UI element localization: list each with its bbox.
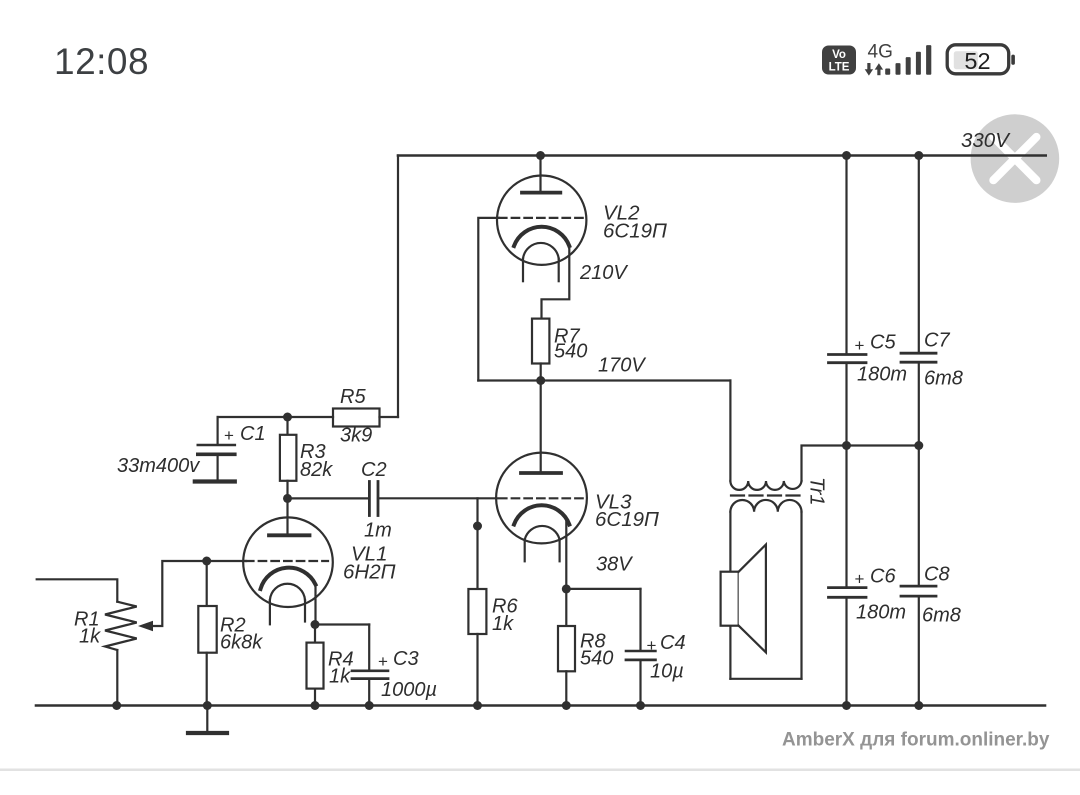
svg-text:1k: 1k bbox=[79, 626, 101, 648]
node: R5/R3/C1 junction bbox=[283, 413, 292, 422]
svg-text:180m: 180m bbox=[857, 364, 907, 386]
signal strength bars bbox=[885, 45, 931, 75]
resistor R3 bbox=[280, 417, 297, 498]
resistor R6 bbox=[468, 589, 486, 706]
node: R7 bottom / 170V bbox=[536, 376, 545, 385]
svg-text:1000µ: 1000µ bbox=[381, 679, 437, 701]
node: top rail to VL2 anode bbox=[536, 151, 545, 160]
svg-text:1m: 1m bbox=[364, 520, 392, 542]
VL3 heater bbox=[525, 526, 560, 561]
svg-text:540: 540 bbox=[554, 341, 587, 363]
wire: 170V rail bbox=[478, 379, 730, 381]
svg-text:170V: 170V bbox=[598, 355, 646, 377]
capacitor C4 bbox=[626, 589, 655, 706]
node: cathode/R8/C4 bbox=[562, 584, 571, 593]
node: rail C3 bbox=[365, 701, 374, 710]
bottom separator line bbox=[0, 769, 1080, 772]
clock 12:08 bbox=[54, 41, 149, 82]
svg-text:38V: 38V bbox=[596, 554, 633, 576]
node: R3 bottom / VL1 anode / C2 bbox=[283, 494, 292, 503]
wire: left B+ drop to R5 bbox=[397, 156, 399, 418]
VL3 anode bbox=[521, 471, 561, 475]
wire: node to C3 bbox=[315, 623, 369, 625]
svg-text:C7: C7 bbox=[924, 330, 950, 352]
VL1 grid (dashed) bbox=[246, 560, 328, 562]
wire: 170V down to transformer primary bbox=[729, 381, 731, 482]
VL2 anode bbox=[522, 156, 560, 193]
resistor R2 bbox=[198, 561, 216, 706]
resistor R8 bbox=[558, 589, 575, 706]
wire: secondary right down bbox=[800, 512, 802, 679]
svg-text:33m400v: 33m400v bbox=[117, 455, 200, 477]
svg-text:+: + bbox=[855, 336, 865, 355]
svg-text:+: + bbox=[647, 636, 657, 655]
triode VL2 envelope bbox=[497, 176, 586, 265]
VL1 heater bbox=[270, 584, 305, 625]
4G label bbox=[868, 41, 893, 62]
svg-text:330V: 330V bbox=[961, 129, 1011, 152]
node: rail C4 bbox=[636, 701, 645, 710]
wire: R1 bottom to rail bbox=[116, 650, 118, 706]
svg-text:1k: 1k bbox=[492, 613, 514, 635]
svg-text:6m8: 6m8 bbox=[922, 605, 961, 627]
speaker cone bbox=[739, 545, 766, 653]
node: rail R1 bbox=[112, 701, 121, 710]
VL2 grid (dashed) bbox=[499, 217, 583, 219]
svg-text:4G: 4G bbox=[868, 41, 893, 62]
svg-text:540: 540 bbox=[580, 648, 613, 670]
svg-text:180m: 180m bbox=[856, 602, 906, 624]
svg-text:210V: 210V bbox=[579, 262, 628, 284]
node: grid wire to R2 bbox=[202, 557, 211, 566]
VL1 cathode bbox=[261, 568, 316, 589]
svg-text:6k8k: 6k8k bbox=[220, 632, 263, 654]
wire: VL1 cathode lead bbox=[314, 585, 316, 625]
svg-text:3k9: 3k9 bbox=[340, 425, 372, 447]
battery icon bbox=[947, 45, 1015, 74]
node: rail C8 bbox=[914, 701, 923, 710]
svg-text:Vo: Vo bbox=[832, 49, 846, 61]
svg-text:C8: C8 bbox=[924, 564, 950, 586]
svg-text:6Н2П: 6Н2П bbox=[343, 561, 396, 584]
wire: node to C4 bbox=[566, 588, 640, 590]
svg-text:12:08: 12:08 bbox=[54, 41, 149, 82]
wire: branch down to R6 bbox=[476, 498, 478, 589]
capacitor C7 bbox=[901, 156, 936, 446]
svg-text:AmberX для forum.onliner.by: AmberX для forum.onliner.by bbox=[782, 730, 1050, 751]
data activity arrows bbox=[865, 63, 883, 76]
capacitor C8 bbox=[901, 446, 936, 706]
svg-text:6m8: 6m8 bbox=[924, 368, 963, 390]
arrowhead to R1 wiper bbox=[138, 621, 153, 632]
wire: C2 to VL3 grid bbox=[378, 497, 497, 499]
VoLTE badge bbox=[822, 46, 856, 75]
ground bar below R2 bbox=[188, 706, 227, 734]
svg-text:10µ: 10µ bbox=[650, 661, 684, 683]
node: top rail to C7 bbox=[914, 151, 923, 160]
node: top rail to C5 bbox=[842, 151, 851, 160]
svg-text:+: + bbox=[378, 652, 388, 671]
node: rail R4 bbox=[311, 701, 320, 710]
wire: R5 right to B+ drop bbox=[380, 416, 399, 418]
svg-text:C3: C3 bbox=[393, 648, 419, 670]
wire: VL3 cathode lead bbox=[565, 522, 567, 589]
svg-text:C5: C5 bbox=[870, 332, 896, 354]
svg-text:C2: C2 bbox=[361, 459, 387, 481]
wire: secondary left down bbox=[729, 512, 731, 679]
svg-text:1k: 1k bbox=[329, 666, 351, 688]
svg-text:+: + bbox=[224, 426, 234, 445]
VL2 heater bbox=[523, 243, 559, 281]
VL3 cathode bbox=[514, 505, 569, 524]
svg-text:C1: C1 bbox=[240, 423, 266, 445]
bottom ground rail bbox=[36, 704, 1045, 707]
svg-text:C6: C6 bbox=[870, 566, 896, 588]
wire: primary right up to mid rail bbox=[802, 446, 919, 482]
VL2 cathode bbox=[514, 227, 569, 246]
capacitor C6 bbox=[829, 446, 867, 706]
node: rail C6 bbox=[842, 701, 851, 710]
ground bar below C1 bbox=[195, 479, 235, 483]
wire: 170V down to VL3 anode bbox=[540, 381, 542, 472]
svg-text:6С19П: 6С19П bbox=[603, 220, 667, 243]
wire: VL2 cathode lead to R7 bbox=[542, 246, 570, 319]
svg-text:LTE: LTE bbox=[829, 62, 850, 74]
potentiometer R1 zigzag bbox=[105, 602, 137, 650]
speaker driver bbox=[721, 572, 739, 626]
svg-text:6С19П: 6С19П bbox=[595, 508, 659, 531]
capacitor C2 bbox=[369, 482, 378, 516]
node: rail R8 bbox=[562, 701, 571, 710]
wire: secondary loop bottom bbox=[730, 678, 801, 680]
resistor R4 bbox=[307, 625, 324, 706]
VL1 anode bbox=[269, 498, 310, 535]
watermark bbox=[782, 730, 1050, 751]
wire: R5 left to C1/R3 node bbox=[218, 416, 333, 418]
resistor R5 bbox=[333, 409, 380, 427]
svg-text:82k: 82k bbox=[300, 459, 333, 481]
svg-text:C4: C4 bbox=[660, 632, 686, 654]
node: cathode/R4/C3 bbox=[311, 620, 320, 629]
wire: VL1 grid out to left bbox=[153, 561, 246, 626]
wire: VL2 grid to 170V bbox=[478, 218, 499, 381]
VL3 grid (dashed) bbox=[499, 497, 583, 499]
triode VL3 envelope bbox=[496, 453, 587, 544]
svg-text:52: 52 bbox=[964, 48, 990, 74]
transformer Tr1 primary bbox=[730, 481, 801, 490]
triode VL1 envelope bbox=[243, 517, 333, 607]
wire: top B+ rail 330V bbox=[398, 154, 1046, 157]
input wire bbox=[37, 579, 118, 601]
transformer core bbox=[731, 494, 801, 496]
node: rail R6 bbox=[473, 701, 482, 710]
resistor R7 bbox=[532, 319, 549, 381]
node: R6 branch dot bbox=[473, 522, 482, 531]
node: mid rail C6 bbox=[842, 441, 851, 450]
node: mid rail C8 bbox=[914, 441, 923, 450]
node: rail R2 bbox=[203, 701, 212, 710]
capacitor C3 bbox=[352, 625, 388, 706]
capacitor C5 bbox=[829, 156, 867, 446]
svg-text:+: + bbox=[855, 570, 865, 589]
transformer Tr1 secondary bbox=[730, 500, 801, 512]
svg-text:Tr1: Tr1 bbox=[806, 477, 828, 506]
svg-text:R5: R5 bbox=[340, 386, 366, 408]
capacitor C1 bbox=[198, 417, 235, 480]
wire: node to C2 bbox=[288, 497, 369, 499]
